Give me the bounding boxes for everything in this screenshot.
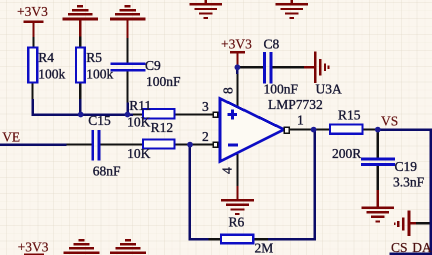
svg-text:R15: R15 xyxy=(338,107,361,122)
svg-text:C15: C15 xyxy=(88,113,111,128)
svg-text:R4: R4 xyxy=(38,50,54,65)
svg-text:3.3nF: 3.3nF xyxy=(393,175,425,190)
svg-text:200R: 200R xyxy=(332,146,361,161)
svg-text:+3V3: +3V3 xyxy=(18,240,49,255)
svg-text:4: 4 xyxy=(219,167,234,174)
svg-text:10K: 10K xyxy=(127,114,151,129)
svg-text:R11: R11 xyxy=(129,98,151,113)
svg-text:8: 8 xyxy=(221,87,236,94)
svg-text:DA: DA xyxy=(412,240,432,255)
svg-text:100k: 100k xyxy=(86,67,113,82)
svg-text:R12: R12 xyxy=(151,120,174,135)
svg-text:R5: R5 xyxy=(86,50,102,65)
svg-text:100k: 100k xyxy=(38,67,65,82)
svg-text:LMP7732: LMP7732 xyxy=(268,97,323,112)
svg-text:U3A: U3A xyxy=(316,81,342,96)
svg-text:VE: VE xyxy=(2,130,20,145)
svg-text:+3V3: +3V3 xyxy=(17,4,48,19)
svg-text:2: 2 xyxy=(202,129,209,144)
svg-text:10K: 10K xyxy=(127,146,151,161)
svg-text:CS: CS xyxy=(391,240,408,255)
svg-text:C8: C8 xyxy=(264,36,280,51)
svg-text:C19: C19 xyxy=(395,159,418,174)
svg-text:3: 3 xyxy=(202,99,209,114)
svg-text:C9: C9 xyxy=(145,58,161,73)
svg-text:R6: R6 xyxy=(229,215,245,230)
svg-text:VS: VS xyxy=(381,114,398,129)
svg-text:68nF: 68nF xyxy=(93,164,121,179)
svg-text:100nF: 100nF xyxy=(146,74,181,89)
svg-text:100nF: 100nF xyxy=(264,81,299,96)
svg-text:2M: 2M xyxy=(255,240,274,255)
svg-text:+3V3: +3V3 xyxy=(221,36,252,51)
svg-text:1: 1 xyxy=(297,113,304,128)
